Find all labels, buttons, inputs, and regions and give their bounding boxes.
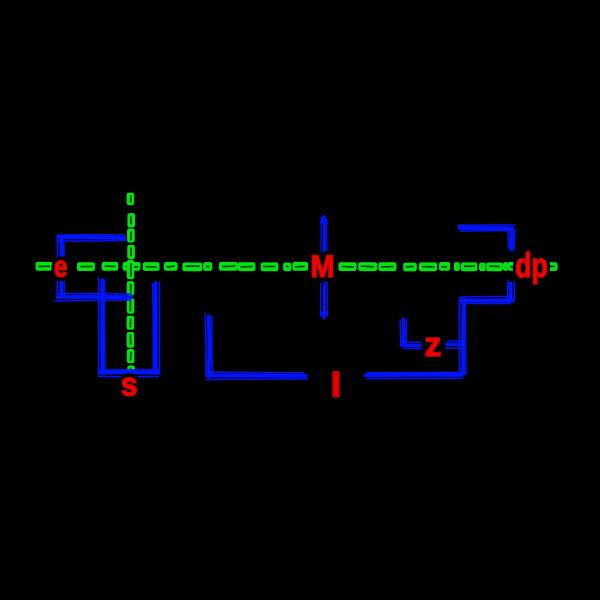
dimension dp: lower right vertical line bbox=[507, 280, 514, 302]
svg-text:l: l bbox=[331, 367, 340, 403]
vertical centerline (green dash) bbox=[127, 193, 134, 371]
dimension s: bottom line bbox=[98, 370, 159, 377]
dimension dp: top horizontal line bbox=[458, 225, 516, 231]
dimension z: left vertical tick bbox=[400, 318, 407, 347]
dimension z: left horizontal line bbox=[401, 342, 422, 349]
dimension l: bottom line left part bbox=[206, 372, 308, 379]
label l bbox=[331, 367, 340, 403]
dimension l: bottom line right part bbox=[364, 372, 463, 378]
dimension s: left extension line bbox=[98, 277, 105, 375]
label M bbox=[311, 248, 335, 284]
svg-text:z: z bbox=[425, 326, 442, 364]
svg-text:M: M bbox=[311, 248, 335, 284]
dimension l: left vertical line bbox=[205, 313, 212, 378]
horizontal centerline (green dash-dot) bbox=[36, 263, 557, 271]
centerline cross mark at intersection bbox=[128, 261, 134, 279]
label e bbox=[54, 251, 68, 284]
dimension M: upper arrowhead bbox=[320, 214, 327, 224]
dimension z: right horizontal line bbox=[445, 341, 465, 348]
dimension dp: middle horizontal line bbox=[459, 296, 514, 303]
dimension s: right extension line bbox=[153, 281, 160, 374]
svg-text:dp: dp bbox=[515, 247, 548, 285]
dimension dp: long vertical line down to l line bbox=[459, 299, 466, 376]
dimension e: top horizontal line bbox=[56, 235, 127, 241]
dimension M: lower arrowhead bbox=[320, 311, 327, 320]
dimension e: bottom horizontal line bbox=[55, 294, 133, 301]
dimension dp: upper right vertical line bbox=[508, 226, 515, 251]
dimension M: vertical double-headed arrow shaft bbox=[320, 216, 327, 317]
label z bbox=[425, 326, 442, 364]
svg-text:s: s bbox=[121, 366, 138, 403]
dimension e: vertical line through label bbox=[57, 235, 64, 299]
label dp bbox=[515, 247, 548, 285]
label s bbox=[121, 366, 138, 403]
svg-text:e: e bbox=[54, 251, 68, 284]
